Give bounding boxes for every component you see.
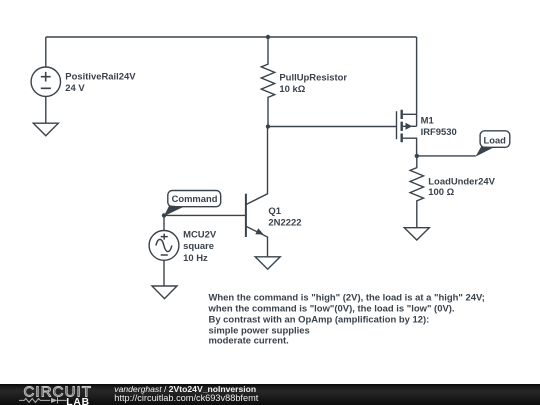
transistor Q1 base bar [245, 194, 247, 237]
wire gate lead [268, 126, 397, 128]
svg-text:IRF9530: IRF9530 [421, 127, 457, 138]
flag Load box [480, 131, 510, 148]
wire V1 bottom lead [45, 96, 47, 123]
resistor R2 LoadUnder24V [410, 156, 423, 228]
svg-text:LAB: LAB [66, 397, 90, 405]
mosfet M1 source lead [403, 37, 417, 126]
wire Q1 collector [246, 127, 268, 205]
svg-text:10 Hz: 10 Hz [183, 253, 208, 264]
voltage source V2 MCU2V [149, 231, 179, 261]
mosfet M1 channel bars [401, 110, 403, 143]
wire command drop [163, 215, 165, 230]
svg-text:LoadUnder24V: LoadUnder24V [428, 176, 495, 187]
svg-text:square: square [183, 241, 214, 252]
svg-text:MCU2V: MCU2V [183, 230, 217, 241]
wire Q1 emitter [246, 226, 268, 257]
svg-text:24 V: 24 V [65, 83, 85, 94]
svg-text:By contrast with an OpAmp (amp: By contrast with an OpAmp (amplification… [209, 314, 430, 325]
footer bar [0, 384, 540, 405]
mosfet M1 arrow [406, 123, 413, 130]
ground G1 [33, 123, 58, 136]
svg-text:Command: Command [172, 193, 218, 204]
ground G2 [255, 257, 280, 269]
transistor Q1 emitter arrow [255, 228, 263, 234]
svg-text:2N2222: 2N2222 [268, 217, 301, 228]
svg-text:M1: M1 [421, 115, 434, 126]
wire V1 top lead [45, 37, 47, 67]
junction dot B [266, 124, 270, 128]
mosfet M1 gate bar [396, 111, 398, 139]
junction dot A [266, 35, 270, 39]
flag Command box [168, 191, 221, 207]
flag Load tail [476, 146, 494, 156]
svg-text:When the command is "high" (2V: When the command is "high" (2V), the loa… [209, 292, 485, 303]
wire top rail [46, 36, 417, 38]
voltage source V1 PositiveRail24V [31, 67, 60, 96]
svg-text:PositiveRail24V: PositiveRail24V [65, 72, 136, 83]
svg-text:Q1: Q1 [268, 206, 281, 217]
svg-text:simple power supplies: simple power supplies [209, 325, 310, 336]
ground G3 [152, 286, 177, 299]
svg-text:100 Ω: 100 Ω [428, 187, 454, 198]
junction dot D [162, 213, 166, 217]
flag Command tail [164, 205, 184, 216]
mosfet M1 drain lead [403, 138, 417, 156]
wire Q1 base lead [164, 214, 246, 216]
junction dot C [415, 154, 419, 158]
ground G4 [404, 228, 429, 240]
logo squiggle [19, 398, 50, 402]
wire V2 bottom lead [163, 260, 165, 286]
resistor R1 PullUpResistor [261, 37, 274, 127]
logo diode [51, 398, 58, 403]
svg-text:PullUpResistor: PullUpResistor [279, 72, 347, 83]
wire load net [417, 155, 476, 157]
svg-text:Load: Load [484, 134, 507, 145]
svg-text:when the command is "low"(0V),: when the command is "low"(0V), the load … [208, 303, 455, 314]
svg-text:moderate current.: moderate current. [209, 336, 289, 347]
svg-text:10 kΩ: 10 kΩ [279, 84, 305, 95]
